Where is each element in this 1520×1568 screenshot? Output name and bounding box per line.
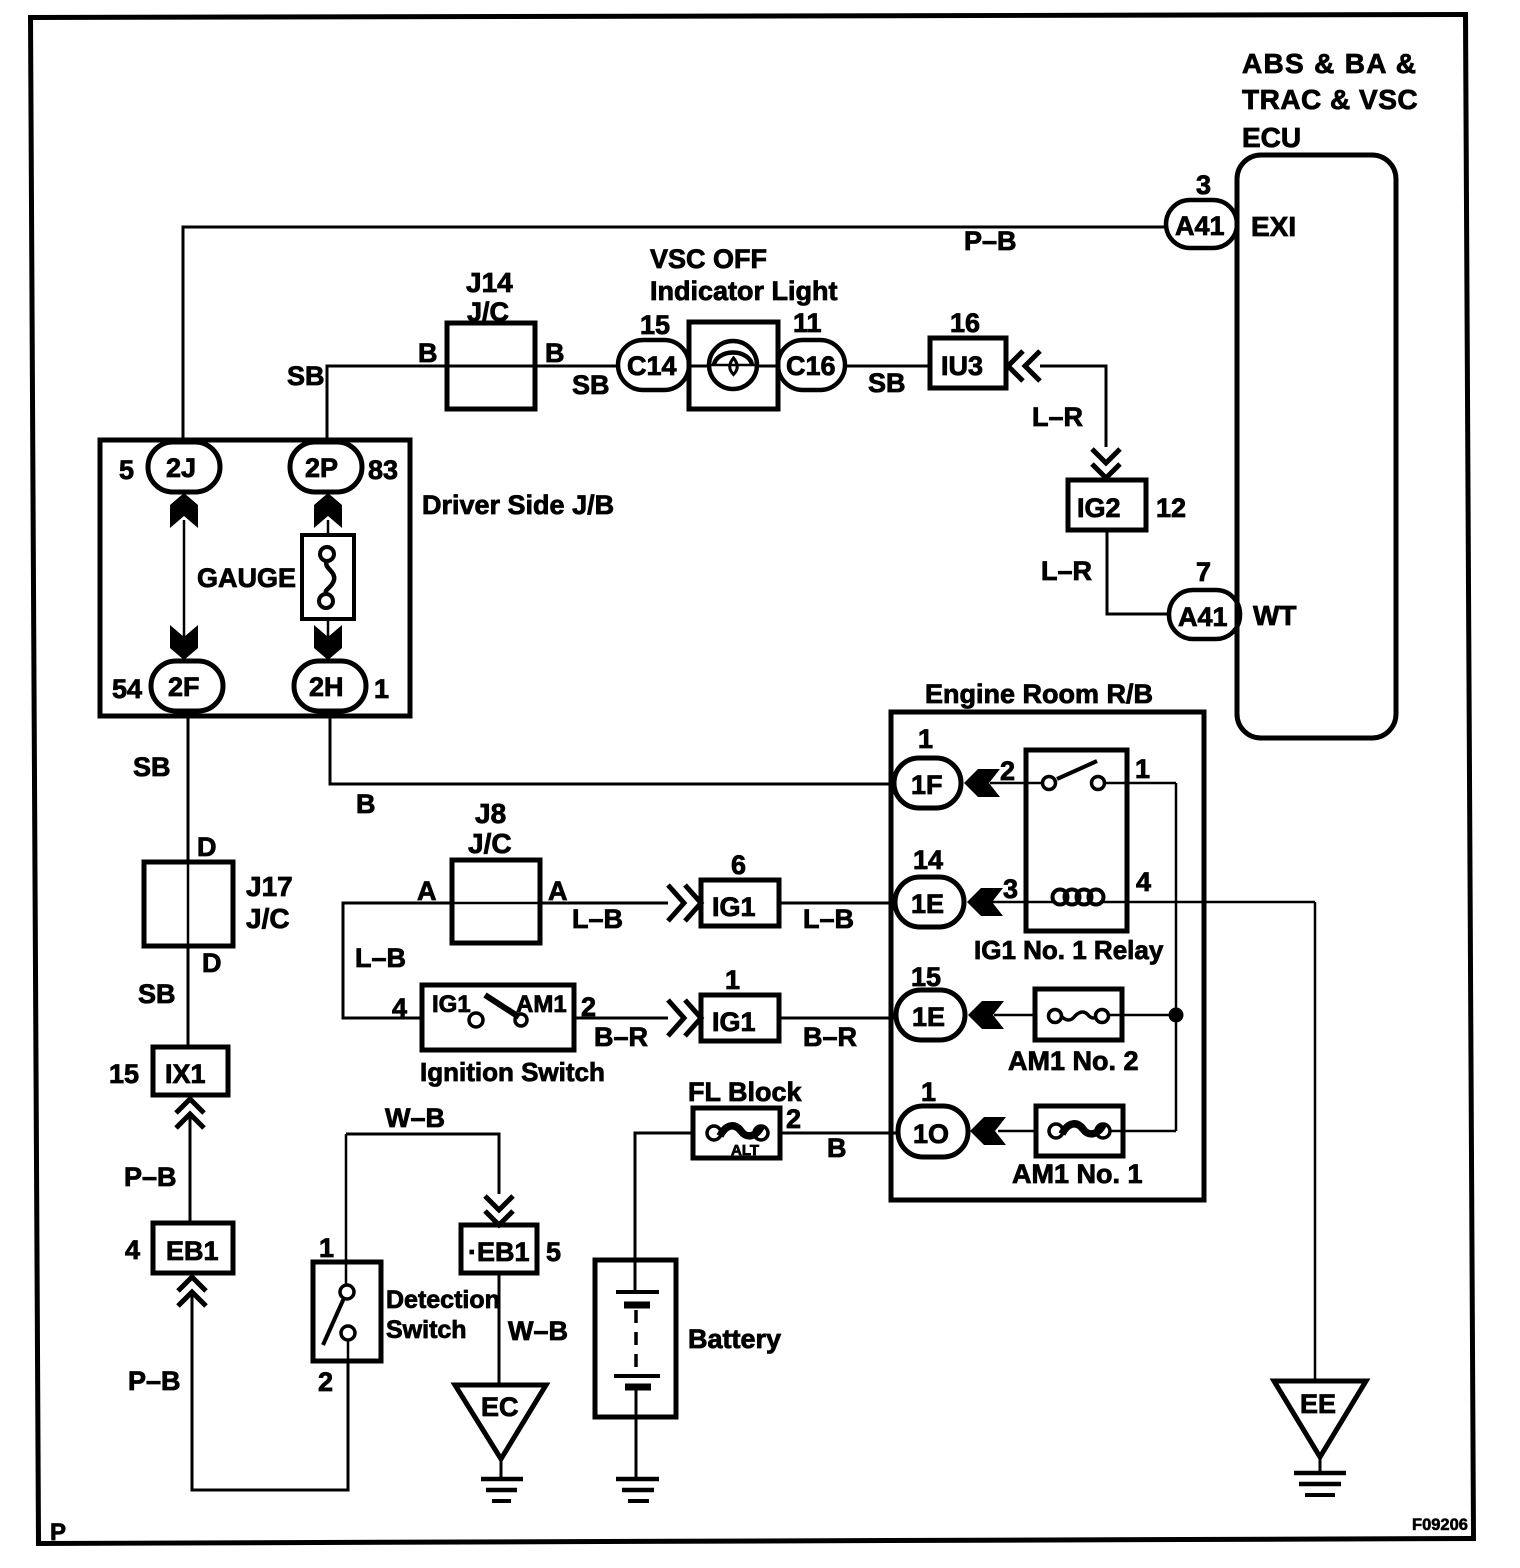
- svg-text:J/C: J/C: [246, 903, 290, 934]
- svg-text:AM1 No. 2: AM1 No. 2: [1008, 1046, 1139, 1076]
- relay switch contact right: [1092, 777, 1105, 790]
- svg-text:1: 1: [918, 724, 933, 754]
- ECU body: [1237, 155, 1396, 738]
- wire 2H to 1F: [330, 716, 894, 784]
- svg-text:Indicator Light: Indicator Light: [650, 276, 837, 306]
- svg-text:2: 2: [1000, 756, 1015, 786]
- svg-text:2P: 2P: [305, 453, 338, 483]
- wire IG1 to 1E pin15: [779, 1017, 898, 1020]
- svg-text:1: 1: [319, 1233, 334, 1263]
- wire down to EE: [1314, 902, 1317, 1381]
- svg-text:6: 6: [731, 850, 746, 880]
- svg-text:SB: SB: [133, 752, 171, 782]
- connector 1E pin 15: [896, 990, 965, 1040]
- svg-text:5: 5: [546, 1237, 561, 1267]
- svg-text:J/C: J/C: [467, 297, 509, 327]
- connector 2P pin 83: [290, 442, 362, 492]
- svg-text:1: 1: [1135, 754, 1150, 784]
- ground EE triangle: [1274, 1381, 1366, 1457]
- connector IG1 pin 1: [701, 995, 779, 1041]
- svg-text:IG1 No. 1 Relay: IG1 No. 1 Relay: [974, 935, 1164, 965]
- arrow chevrons into IG1 pin6: [668, 885, 684, 921]
- svg-text:4: 4: [392, 993, 407, 1023]
- svg-text:5: 5: [119, 455, 134, 485]
- wire FL block to 1O: [780, 1132, 900, 1135]
- svg-text:WT: WT: [1253, 600, 1297, 631]
- wire relay pin1 down: [1175, 783, 1178, 1131]
- svg-text:83: 83: [368, 455, 398, 485]
- switch blade: [323, 1298, 344, 1345]
- wire switch to IG1 pin1: [574, 1017, 668, 1020]
- svg-text:1E: 1E: [911, 889, 944, 919]
- svg-text:D: D: [202, 948, 222, 978]
- svg-text:L–R: L–R: [1041, 556, 1092, 586]
- FL block box: [693, 1108, 780, 1158]
- svg-text:A41: A41: [1175, 211, 1225, 241]
- wire J8 right to IG1: [540, 902, 668, 905]
- switch contact top: [340, 1285, 354, 1299]
- connector EB1 pin 5: [461, 1225, 537, 1273]
- svg-text:W–B: W–B: [385, 1103, 445, 1133]
- wire J17 to IX1: [187, 946, 190, 1047]
- svg-text:Switch: Switch: [386, 1316, 467, 1344]
- svg-text:1E: 1E: [912, 1002, 945, 1032]
- wire 2P to J14: [327, 366, 447, 440]
- Engine Room R/B box: [891, 712, 1204, 1200]
- svg-text:2H: 2H: [309, 672, 344, 702]
- svg-text:2: 2: [318, 1367, 333, 1397]
- arrow chevrons into IG2: [1092, 449, 1120, 463]
- wire arrow to relay pin2: [990, 782, 1043, 785]
- svg-text:IX1: IX1: [165, 1059, 206, 1089]
- svg-text:EE: EE: [1300, 1389, 1336, 1419]
- svg-text:VSC OFF: VSC OFF: [650, 244, 767, 274]
- svg-text:TRAC & VSC: TRAC & VSC: [1242, 84, 1418, 115]
- svg-text:W–B: W–B: [508, 1316, 568, 1346]
- svg-text:C14: C14: [627, 351, 677, 381]
- wire IG2 to A41 pin7: [1107, 530, 1169, 614]
- svg-text:SB: SB: [138, 979, 176, 1009]
- wire IG1 to 1E pin14: [779, 902, 896, 905]
- wire IU3 to IG2: [1040, 366, 1106, 447]
- arrow chevrons up into EB1: [178, 1277, 206, 1291]
- detection switch box: [313, 1262, 381, 1361]
- wire EB1 pin5 to EC: [498, 1273, 501, 1385]
- relay coil: [1053, 890, 1068, 905]
- svg-text:J/C: J/C: [468, 828, 512, 859]
- solid arrow into 1O: [970, 1117, 1006, 1145]
- wire fusible link to vertical: [1110, 1130, 1176, 1133]
- svg-text:1: 1: [921, 1077, 936, 1107]
- solid arrow into 1E 14: [967, 888, 1003, 916]
- AM1 No.2 fuse symbol: [1049, 1010, 1062, 1023]
- junction connector J14 J/C: [447, 323, 535, 409]
- svg-text:7: 7: [1196, 557, 1211, 587]
- arrow chevrons into IU3: [1008, 351, 1023, 381]
- svg-text:Detection: Detection: [386, 1286, 500, 1314]
- svg-text:B: B: [418, 338, 438, 368]
- connector 2F pin 54: [151, 661, 223, 711]
- svg-text:ABS & BA &: ABS & BA &: [1242, 48, 1417, 79]
- svg-text:L–B: L–B: [572, 904, 623, 934]
- connector EB1 pin 4: [153, 1223, 233, 1273]
- svg-text:F09206: F09206: [1412, 1516, 1468, 1534]
- switch wire pin2: [347, 1340, 350, 1361]
- arrow chevrons down into EB1 pin5: [485, 1196, 513, 1210]
- arrow chevrons into IG1 pin1: [668, 1000, 684, 1036]
- svg-text:11: 11: [793, 308, 822, 338]
- relay switch blade: [1057, 761, 1097, 779]
- wire battery to ground: [635, 1417, 638, 1478]
- svg-text:Driver Side J/B: Driver Side J/B: [422, 490, 614, 520]
- svg-text:54: 54: [112, 674, 142, 704]
- connector 2H pin 1: [294, 661, 366, 711]
- svg-text:14: 14: [913, 845, 943, 875]
- connector 2J pin 5: [148, 442, 220, 492]
- Driver Side J/B box: [100, 440, 410, 716]
- indicator lamp box: [689, 322, 778, 409]
- solid arrow up to 2J: [170, 493, 198, 528]
- svg-text:P–B: P–B: [964, 226, 1017, 256]
- internal wire 2J-2F: [183, 520, 186, 640]
- switch wire pin1: [345, 1134, 348, 1286]
- svg-text:ECU: ECU: [1242, 122, 1301, 153]
- svg-text:EXI: EXI: [1251, 211, 1296, 242]
- svg-text:Engine Room R/B: Engine Room R/B: [925, 679, 1153, 709]
- svg-text:B: B: [356, 789, 376, 819]
- svg-text:IG1: IG1: [432, 991, 471, 1018]
- ignition switch box: [422, 985, 574, 1050]
- svg-text:AM1 No. 1: AM1 No. 1: [1012, 1159, 1143, 1189]
- svg-text:EB1: EB1: [166, 1236, 219, 1266]
- solid arrow down to 2F: [170, 625, 198, 660]
- svg-text:2J: 2J: [166, 453, 196, 483]
- svg-text:SB: SB: [572, 370, 610, 400]
- svg-text:1: 1: [725, 965, 740, 995]
- svg-text:P: P: [50, 1519, 66, 1546]
- GAUGE fuse symbol: [320, 547, 334, 561]
- svg-text:J17: J17: [246, 871, 293, 902]
- svg-text:C16: C16: [786, 351, 836, 381]
- wire coil pin4 to EE drop: [1101, 901, 1315, 904]
- svg-text:SB: SB: [287, 361, 325, 391]
- svg-text:1: 1: [374, 674, 389, 704]
- svg-text:ALT: ALT: [731, 1142, 759, 1159]
- svg-text:·EB1: ·EB1: [468, 1237, 530, 1267]
- label Detection Switch: [386, 1286, 500, 1344]
- svg-text:2: 2: [786, 1104, 801, 1134]
- wire J8 left to ignition switch pin4: [343, 903, 452, 1018]
- svg-text:1O: 1O: [913, 1119, 949, 1149]
- battery box: [595, 1260, 676, 1417]
- arrow chevrons up into IX1: [176, 1099, 204, 1113]
- wire fuse to junction: [1108, 1014, 1176, 1017]
- svg-text:IU3: IU3: [941, 351, 983, 381]
- ECU title text: [1242, 48, 1418, 153]
- battery symbol: [634, 1260, 637, 1291]
- wire arrow to relay coil pin3: [992, 901, 1053, 904]
- svg-text:L–R: L–R: [1032, 402, 1083, 432]
- AM1 No.1 fusible link symbol: [1049, 1124, 1063, 1138]
- svg-text:D: D: [197, 832, 217, 862]
- connector 1E pin 14: [895, 877, 964, 927]
- switch contact AM1: [515, 1014, 527, 1026]
- svg-text:Ignition Switch: Ignition Switch: [420, 1057, 605, 1087]
- wire 2F to J17: [187, 716, 190, 862]
- svg-text:12: 12: [1156, 493, 1186, 523]
- wire C16 to IU3: [845, 365, 930, 368]
- svg-text:4: 4: [125, 1235, 140, 1265]
- connector 1O pin 1: [898, 1106, 968, 1157]
- svg-text:SB: SB: [868, 368, 906, 398]
- connector A41 pin 3: [1166, 200, 1237, 248]
- connector A41 pin 7: [1169, 590, 1240, 639]
- svg-text:1F: 1F: [911, 770, 943, 800]
- svg-text:B–R: B–R: [803, 1022, 857, 1052]
- svg-text:4: 4: [1136, 867, 1151, 897]
- wire EB1 down and to detection switch pin2: [192, 1292, 348, 1490]
- battery ground symbol: [616, 1477, 659, 1482]
- wire to EB1 pin4: [189, 1114, 192, 1223]
- svg-text:3: 3: [1003, 874, 1018, 904]
- switch contact bottom: [341, 1326, 355, 1340]
- svg-text:P–B: P–B: [128, 1366, 181, 1396]
- svg-text:P–B: P–B: [124, 1162, 177, 1192]
- wire J14 to C14: [535, 365, 620, 368]
- relay switch wire to pin1: [1105, 782, 1176, 785]
- switch blade: [485, 995, 519, 1017]
- solid arrow up to 2P: [314, 493, 342, 528]
- svg-text:B: B: [545, 338, 565, 368]
- solid arrow into 1F: [964, 769, 1000, 797]
- label VSC OFF Indicator Light: [650, 244, 837, 306]
- lamp symbol: [709, 341, 757, 389]
- svg-text:3: 3: [1196, 170, 1211, 200]
- wire P-B from node 2J to connector A41 pin3: [183, 227, 1166, 440]
- wire FL block to battery: [635, 1133, 693, 1260]
- junction connector J8 J/C: [452, 860, 540, 943]
- wire arrow to AM1 No1: [998, 1130, 1036, 1133]
- fusible link symbol ALT: [707, 1126, 721, 1140]
- junction connector J17 J/C: [144, 862, 233, 946]
- svg-text:15: 15: [640, 310, 670, 340]
- junction dot: [1169, 1008, 1184, 1023]
- svg-text:EC: EC: [481, 1392, 519, 1422]
- solid arrow down to 2H: [314, 625, 342, 660]
- connector IG1 pin 6: [701, 880, 779, 926]
- EE ground symbol: [1319, 1457, 1322, 1473]
- svg-text:J14: J14: [466, 267, 513, 298]
- wire arrow to AM1 No2 fuse: [994, 1014, 1035, 1017]
- svg-text:15: 15: [911, 962, 941, 992]
- svg-text:16: 16: [950, 308, 980, 338]
- AM1 No.1 fusible link box: [1036, 1106, 1123, 1156]
- connector IX1 pin 15: [153, 1047, 228, 1095]
- svg-text:FL Block: FL Block: [688, 1077, 803, 1107]
- svg-text:L–B: L–B: [803, 904, 854, 934]
- svg-text:2F: 2F: [168, 672, 200, 702]
- IG1 No.1 relay box: [1026, 750, 1127, 931]
- svg-text:B: B: [827, 1133, 847, 1163]
- W-B wire from switch to EB1 pin5: [346, 1134, 499, 1194]
- svg-text:L–B: L–B: [355, 943, 406, 973]
- svg-text:IG2: IG2: [1077, 493, 1121, 523]
- relay switch contact left: [1043, 777, 1056, 790]
- AM1 No.2 fuse box: [1035, 989, 1122, 1040]
- svg-text:IG1: IG1: [712, 1007, 756, 1037]
- svg-text:Battery: Battery: [688, 1324, 781, 1354]
- GAUGE fuse box: [302, 535, 354, 619]
- internal wire 2P-gauge-2H: [327, 520, 330, 640]
- switch contact IG1: [469, 1013, 483, 1027]
- EC ground symbol: [481, 1477, 523, 1482]
- svg-text:B–R: B–R: [594, 1022, 648, 1052]
- svg-text:IG1: IG1: [712, 892, 756, 922]
- svg-text:A41: A41: [1178, 602, 1228, 632]
- connector IG2 pin 12: [1068, 480, 1146, 530]
- solid arrow into 1E 15: [968, 1001, 1004, 1029]
- svg-text:GAUGE: GAUGE: [197, 563, 296, 593]
- connector 1F pin 1: [894, 758, 961, 808]
- svg-text:J8: J8: [475, 798, 506, 829]
- ground EC triangle: [455, 1385, 546, 1459]
- svg-text:15: 15: [109, 1059, 139, 1089]
